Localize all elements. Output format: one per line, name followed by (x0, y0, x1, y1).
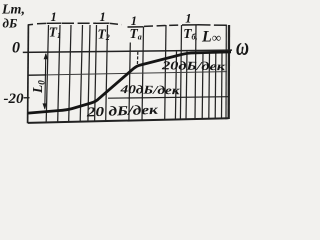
svg-text:0: 0 (12, 40, 20, 57)
svg-text:40дБ/дек: 40дБ/дек (119, 82, 181, 97)
svg-text:20дБ/дек: 20дБ/дек (161, 58, 227, 73)
svg-text:L∞: L∞ (201, 29, 221, 46)
svg-text:20 дБ/дек: 20 дБ/дек (85, 102, 159, 120)
svg-text:1: 1 (51, 10, 57, 24)
svg-text:1: 1 (100, 10, 106, 24)
svg-text:1: 1 (185, 12, 191, 26)
svg-text:-20: -20 (4, 91, 24, 107)
svg-text:дБ: дБ (3, 16, 18, 31)
svg-text:ω: ω (236, 33, 249, 61)
